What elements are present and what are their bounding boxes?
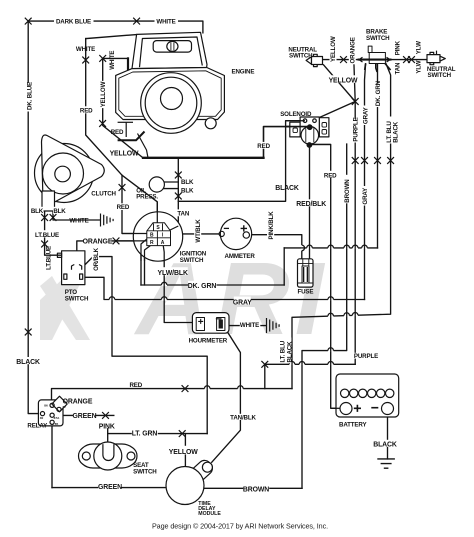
svg-text:85: 85 <box>55 422 59 426</box>
svg-text:87A: 87A <box>54 416 60 420</box>
svg-text:BATTERY: BATTERY <box>339 421 368 428</box>
svg-text:WHITE: WHITE <box>109 51 116 70</box>
svg-text:BROWN: BROWN <box>243 487 269 494</box>
svg-text:ORANGE: ORANGE <box>83 239 113 246</box>
svg-text:SWITCH: SWITCH <box>289 52 313 59</box>
svg-text:30: 30 <box>40 416 44 420</box>
svg-text:WHITE: WHITE <box>69 218 88 225</box>
svg-text:YELLOW: YELLOW <box>169 449 198 456</box>
svg-text:PURPLE: PURPLE <box>354 353 378 360</box>
svg-text:RED: RED <box>324 172 337 179</box>
svg-text:B: B <box>150 233 154 239</box>
svg-text:LT.BLUE: LT.BLUE <box>35 232 59 239</box>
svg-text:YELLOW: YELLOW <box>100 81 107 107</box>
svg-text:RELAY: RELAY <box>27 422 48 429</box>
svg-text:PRESS.: PRESS. <box>136 193 158 200</box>
svg-text:SWITCH: SWITCH <box>428 72 452 79</box>
svg-text:PINK: PINK <box>99 423 115 430</box>
svg-text:LT.BLUE: LT.BLUE <box>45 246 52 270</box>
svg-text:YLW: YLW <box>415 41 422 54</box>
svg-text:BLACK: BLACK <box>275 185 299 192</box>
svg-text:TAN: TAN <box>395 62 402 74</box>
svg-text:RED/BLK: RED/BLK <box>296 201 326 208</box>
svg-text:HOURMETER: HOURMETER <box>189 338 228 345</box>
svg-text:AMMETER: AMMETER <box>225 253 256 260</box>
svg-text:SWITCH: SWITCH <box>366 35 390 42</box>
svg-text:PINK/BLK: PINK/BLK <box>268 211 275 240</box>
svg-text:GREEN: GREEN <box>72 413 96 420</box>
svg-text:YELLOW: YELLOW <box>110 151 139 158</box>
svg-text:BLK: BLK <box>53 208 66 215</box>
svg-text:TAN: TAN <box>177 211 189 218</box>
svg-text:WHITE: WHITE <box>76 46 95 53</box>
svg-text:BROWN: BROWN <box>344 179 351 203</box>
svg-text:RED: RED <box>257 143 270 150</box>
svg-text:WHITE: WHITE <box>156 19 175 26</box>
svg-text:TAN/BLK: TAN/BLK <box>230 415 256 422</box>
svg-text:R: R <box>150 240 154 246</box>
svg-text:Page design © 2004-2017 by ARI: Page design © 2004-2017 by ARI Network S… <box>152 521 328 530</box>
svg-text:ENGINE: ENGINE <box>232 69 255 76</box>
svg-text:CLUTCH: CLUTCH <box>91 191 116 198</box>
svg-text:RED: RED <box>111 129 124 136</box>
svg-text:RED: RED <box>129 382 142 389</box>
svg-text:DK. BLUE: DK. BLUE <box>27 82 34 110</box>
svg-text:YLW: YLW <box>416 60 423 73</box>
svg-text:DK. GRN: DK. GRN <box>188 283 217 290</box>
svg-text:BLACK: BLACK <box>373 442 397 449</box>
svg-text:FUSE: FUSE <box>297 289 313 296</box>
svg-text:86: 86 <box>44 404 48 408</box>
svg-text:A: A <box>161 240 165 246</box>
svg-text:GRAY: GRAY <box>362 106 369 124</box>
svg-text:YELLOW: YELLOW <box>330 36 337 62</box>
svg-text:RED: RED <box>117 204 130 211</box>
svg-text:GREEN: GREEN <box>98 484 122 491</box>
svg-text:SOLENOID: SOLENOID <box>280 111 312 118</box>
svg-text:DARK BLUE: DARK BLUE <box>56 18 91 25</box>
svg-text:WT/BLK: WT/BLK <box>195 219 202 243</box>
svg-text:BLACK: BLACK <box>286 341 293 363</box>
svg-text:WHITE: WHITE <box>240 322 259 329</box>
svg-text:ORANGE: ORANGE <box>63 398 93 405</box>
svg-text:OR/BLK: OR/BLK <box>93 247 100 270</box>
svg-text:MODULE: MODULE <box>198 511 221 517</box>
svg-text:SWITCH: SWITCH <box>133 468 157 475</box>
svg-text:BLACK: BLACK <box>392 121 399 143</box>
svg-text:BLK: BLK <box>181 179 194 186</box>
svg-text:ORANGE: ORANGE <box>350 37 357 63</box>
svg-text:SWITCH: SWITCH <box>65 296 89 303</box>
svg-text:LT. GRN: LT. GRN <box>132 430 158 437</box>
svg-text:BLACK: BLACK <box>16 359 40 366</box>
svg-text:YELLOW: YELLOW <box>329 77 358 84</box>
svg-text:87: 87 <box>63 405 67 409</box>
svg-text:PINK: PINK <box>394 40 401 55</box>
svg-text:GRAY: GRAY <box>233 300 252 307</box>
svg-text:DK. GRN: DK. GRN <box>375 80 382 106</box>
svg-text:RED: RED <box>80 108 93 115</box>
svg-text:BLK: BLK <box>181 187 194 194</box>
svg-text:SWITCH: SWITCH <box>180 257 204 264</box>
svg-text:YLW/BLK: YLW/BLK <box>158 270 188 277</box>
svg-text:PURPLE: PURPLE <box>353 117 360 141</box>
svg-text:GRAY: GRAY <box>362 187 369 205</box>
